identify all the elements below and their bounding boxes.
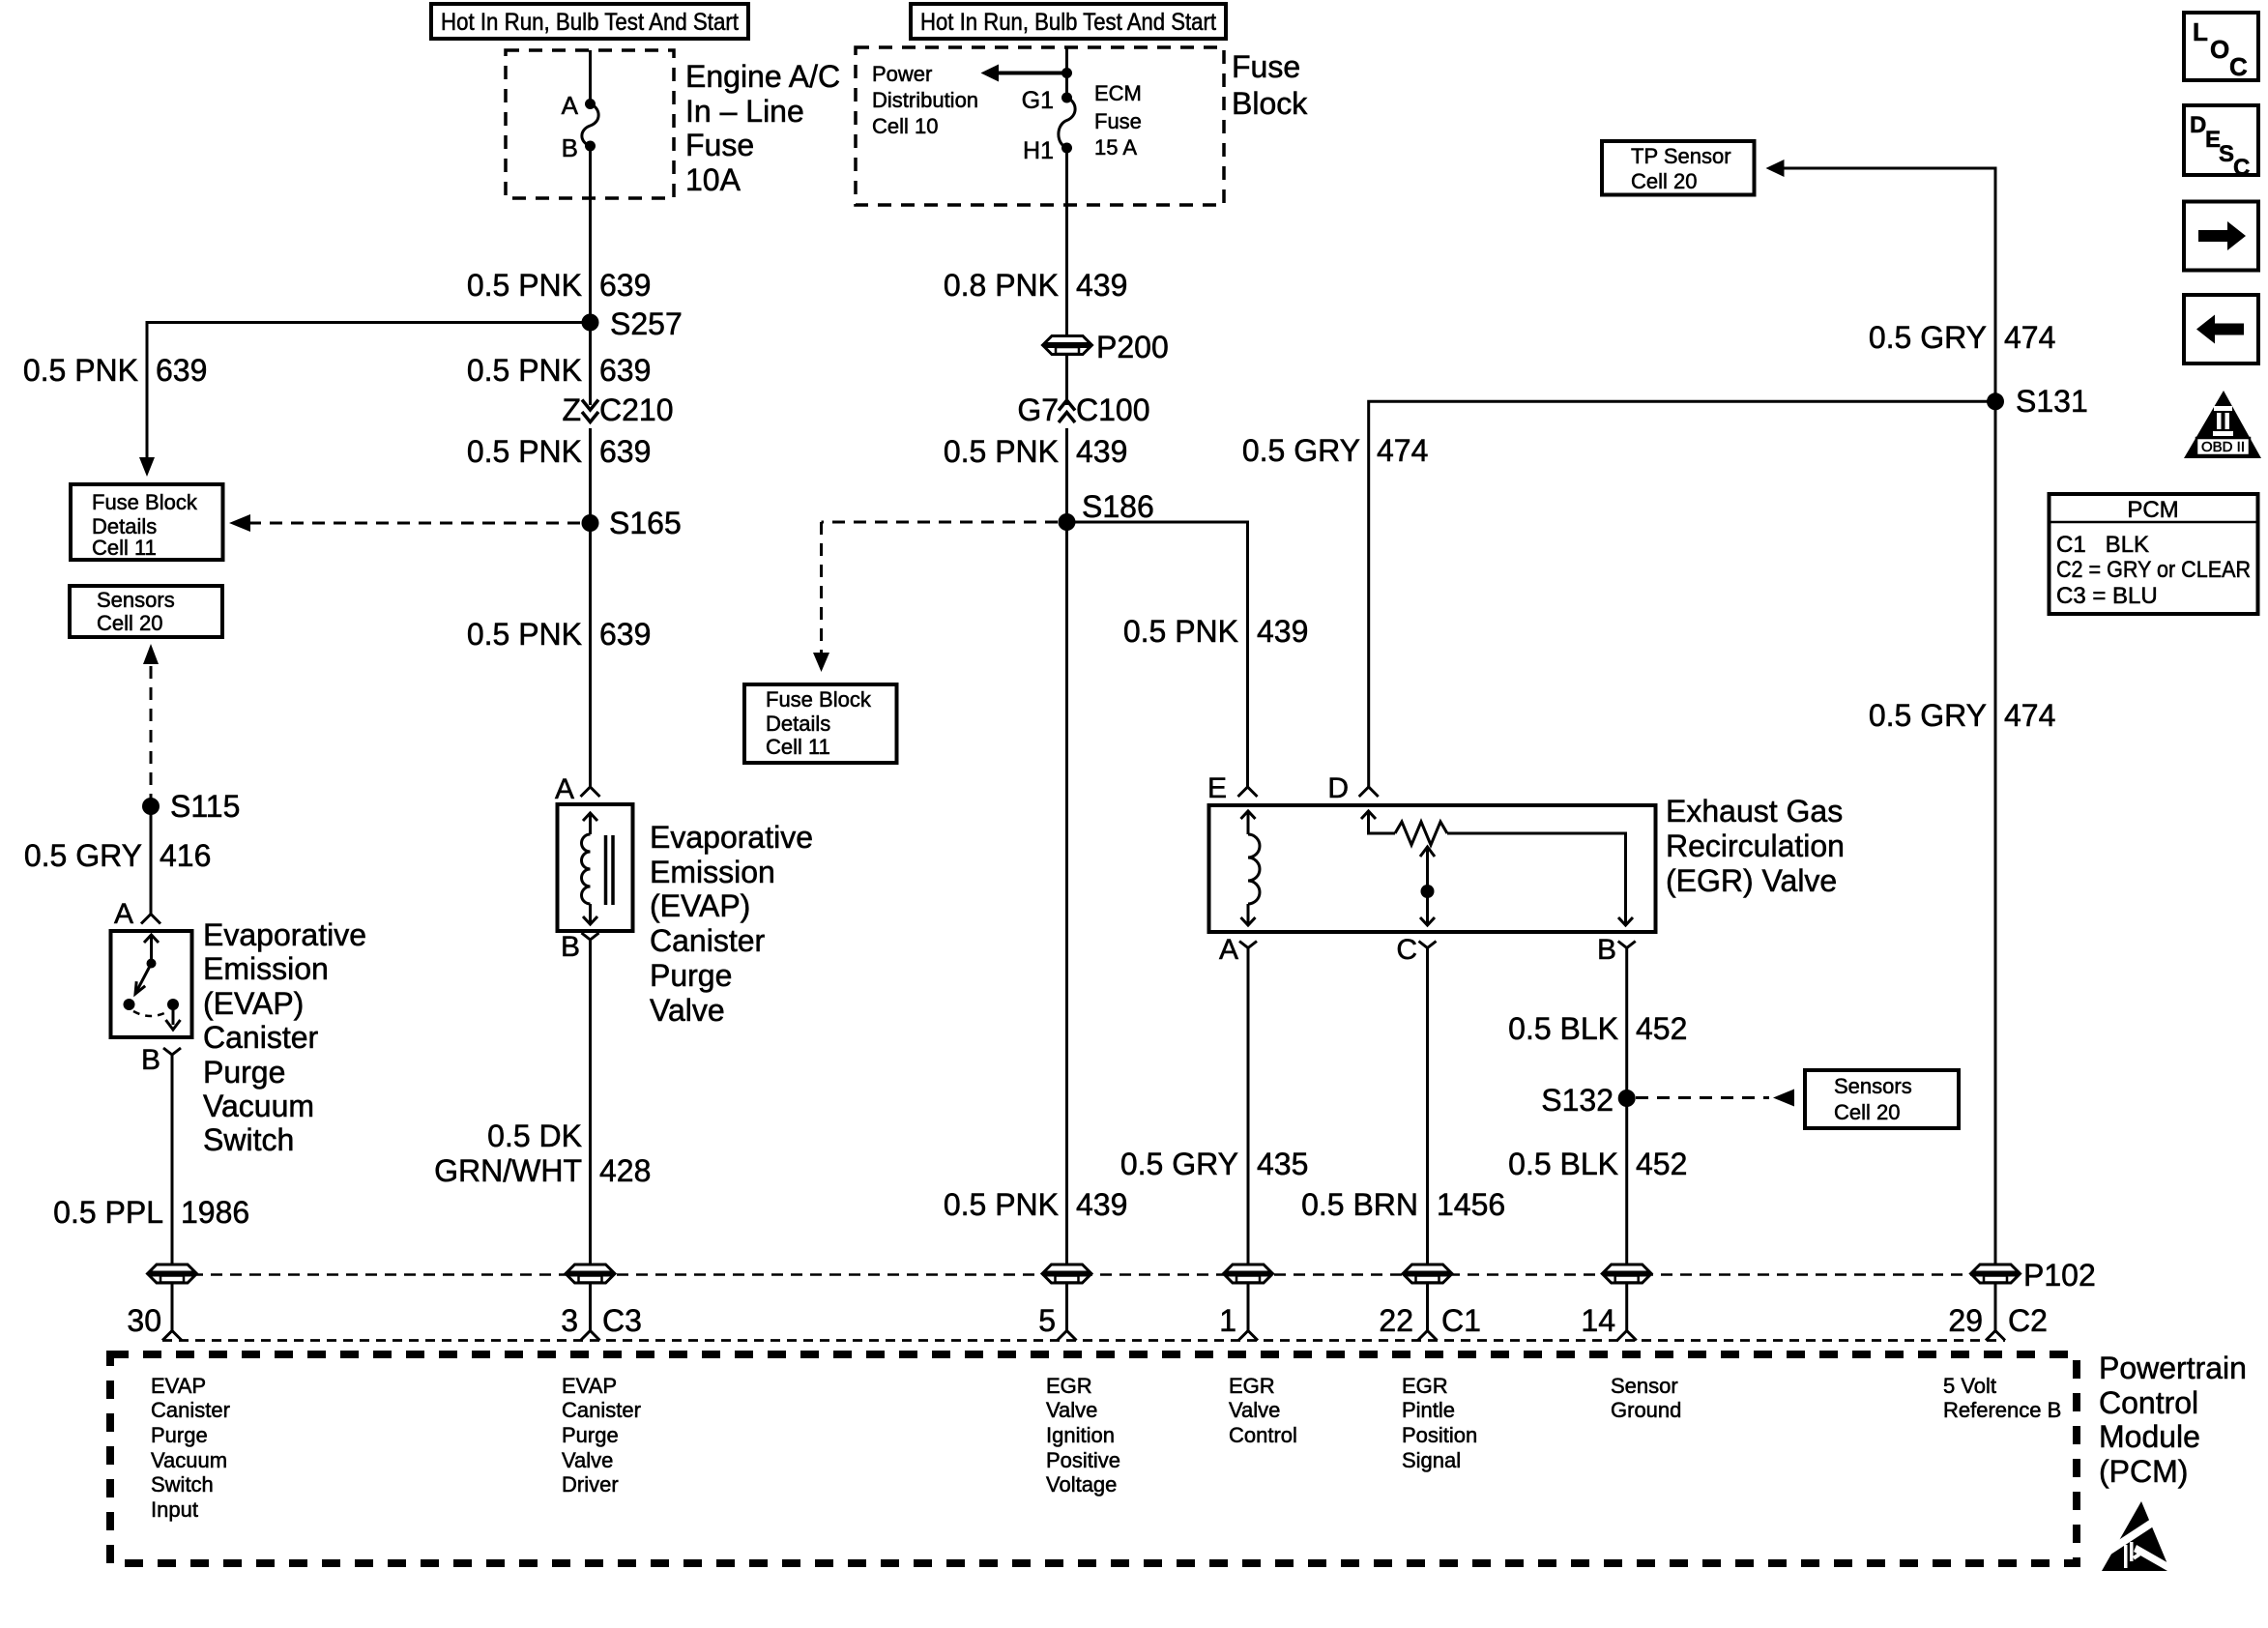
solenoid arrow up [583,813,597,821]
svg-text:Positive: Positive [1046,1448,1120,1472]
fuse block details box1 [71,484,223,560]
connector P102 grommet (pin 30 wire) [149,1265,195,1283]
connector C100 (G7) [1017,392,1149,427]
wire switch B to PCM pin 30 [171,1061,174,1331]
svg-text:Driver: Driver [562,1472,619,1497]
svg-text:(EGR) Valve: (EGR) Valve [1666,863,1837,898]
svg-text:474: 474 [2004,320,2055,355]
svg-text:0.5 PNK: 0.5 PNK [944,1187,1059,1222]
connector grommet (pin 22 wire) [1405,1265,1451,1283]
svg-text:Vacuum: Vacuum [151,1448,227,1472]
fuse block dashed box (right) [856,47,1224,205]
svg-text:B: B [1597,934,1616,966]
svg-text:Valve: Valve [650,993,725,1028]
svg-text:Cell 20: Cell 20 [97,611,162,635]
svg-text:Evaporative: Evaporative [650,820,813,855]
svg-text:439: 439 [1257,614,1308,649]
svg-text:P102: P102 [2023,1258,2096,1293]
svg-text:S115: S115 [170,789,240,824]
svg-text:H1: H1 [1023,137,1054,164]
svg-text:0.5 GRY: 0.5 GRY [1869,320,1987,355]
splice S131 [1987,392,2004,410]
svg-text:3: 3 [561,1303,578,1338]
wire EGR B to PCM pin 14 [1625,955,1628,1331]
svg-text:B: B [561,931,580,963]
svg-text:0.8 PNK: 0.8 PNK [944,268,1059,303]
sensors cell 20 box (right) [1805,1070,1959,1128]
svg-text:29: 29 [1948,1303,1983,1338]
svg-text:C1 BLK: C1 BLK [2056,532,2149,558]
wire valve B to PCM pin 3 [589,946,592,1331]
wire S257 branch left [147,323,591,459]
solenoid arrow down [583,916,597,924]
svg-text:Sensors: Sensors [1834,1074,1912,1098]
svg-text:A: A [562,91,579,120]
svg-text:Purge: Purge [650,958,732,993]
PCM pin 1 description [1229,1374,1297,1447]
svg-text:(PCM): (PCM) [2099,1454,2188,1489]
svg-text:Pintle: Pintle [1402,1398,1455,1422]
svg-text:S186: S186 [1082,489,1154,524]
arrow into TP sensor box [1766,160,1785,177]
svg-text:ECM: ECM [1094,81,1142,105]
svg-text:Fuse Block: Fuse Block [766,687,872,712]
dashed ref S132 to sensors box [1636,1090,1794,1107]
PCM pin 5 description [1046,1374,1120,1497]
svg-text:639: 639 [156,353,207,388]
svg-text:EGR: EGR [1046,1374,1092,1398]
TP sensor box [1602,141,1755,195]
EVAP purge vacuum switch box [111,931,192,1037]
svg-text:A: A [114,898,133,930]
svg-text:452: 452 [1636,1147,1687,1181]
dashed ref S115 up to sensors box [143,644,159,806]
svg-text:C3: C3 [602,1303,642,1338]
right arrow icon box [2184,202,2258,271]
svg-text:Exhaust Gas: Exhaust Gas [1666,794,1843,829]
svg-text:Switch: Switch [203,1122,294,1157]
arrow to power distribution [998,72,1067,75]
svg-text:D: D [2190,112,2206,138]
wire EGR D up and right to S131 [1369,401,1995,787]
svg-text:Switch: Switch [151,1472,214,1497]
svg-text:Distribution: Distribution [872,88,978,112]
svg-text:Signal: Signal [1402,1448,1461,1472]
ECM fuse terminal H1 [1061,143,1072,154]
sensors cell 20 box (left) [70,586,222,637]
svg-text:1456: 1456 [1437,1187,1505,1222]
EVAP canister purge valve box [558,804,633,931]
svg-text:Z: Z [562,392,581,427]
contacts [124,999,135,1010]
ESD symbol [2095,1501,2177,1575]
svg-text:639: 639 [599,434,651,469]
svg-text:(EVAP): (EVAP) [203,986,304,1021]
ECM fuse element [1059,98,1075,148]
svg-text:Block: Block [1232,86,1308,121]
svg-text:(EVAP): (EVAP) [650,888,750,923]
svg-text:Cell 11: Cell 11 [766,735,830,759]
svg-text:Control: Control [1229,1423,1297,1447]
left arrow icon box [2184,295,2258,363]
dashed ref S165 to fuse block details box1 [229,514,580,532]
dotted pin row line [162,1339,2005,1342]
svg-text:0.5 BLK: 0.5 BLK [1508,1011,1618,1046]
connector grommet (pin 5 wire) [1044,1265,1090,1283]
svg-text:15 A: 15 A [1094,135,1137,160]
svg-text:Ground: Ground [1611,1398,1681,1422]
svg-text:639: 639 [599,268,651,303]
splice S115 [142,798,160,815]
svg-text:Power: Power [872,62,932,86]
EGR potentiometer [1361,811,1633,925]
wire 5V ref up to TP sensor arrow [1784,168,1995,1331]
fuse F1 terminal B [585,141,596,152]
svg-text:C: C [2229,52,2248,81]
wire from title to fuse A [589,50,592,104]
svg-text:0.5 GRY: 0.5 GRY [24,838,142,873]
svg-text:S131: S131 [2016,384,2088,419]
core bars [604,835,608,905]
connector grommet (pin 14 wire) [1604,1265,1650,1283]
svg-text:Evaporative: Evaporative [203,917,366,952]
svg-text:Fuse: Fuse [1094,109,1142,133]
svg-text:0.5 PNK: 0.5 PNK [467,617,582,652]
svg-text:Valve: Valve [562,1448,613,1472]
svg-text:0.5 PNK: 0.5 PNK [467,268,582,303]
svg-text:0.5 GRY: 0.5 GRY [1869,698,1987,733]
PCM pin 30 description [151,1374,230,1522]
wire S115 to switch A [150,806,153,915]
wire S186 down to PCM pin 5 [1065,522,1068,1331]
svg-text:439: 439 [1076,1187,1127,1222]
fuse F1 element [582,104,598,147]
fuse F1 dashed box (Engine A/C In-Line Fuse) [506,50,674,198]
svg-text:Fuse Block: Fuse Block [92,490,198,514]
svg-text:0.5 DK: 0.5 DK [487,1119,582,1153]
svg-text:C1: C1 [1441,1303,1481,1338]
svg-text:22: 22 [1379,1303,1413,1338]
svg-text:Purge: Purge [562,1423,619,1447]
fuse block details box (middle) [744,684,897,763]
connector grommet (pin 3 wire) [567,1265,614,1283]
svg-text:C: C [2233,155,2250,181]
svg-text:0.5 GRY: 0.5 GRY [1120,1147,1238,1181]
svg-text:Canister: Canister [562,1398,641,1422]
svg-text:Details: Details [766,712,830,736]
svg-text:439: 439 [1076,434,1127,469]
svg-text:S257: S257 [610,306,683,341]
svg-text:G7: G7 [1017,392,1059,427]
svg-text:1: 1 [1219,1303,1236,1338]
svg-text:Control: Control [2099,1385,2198,1420]
svg-text:Input: Input [151,1497,198,1522]
EGR solenoid coil [1241,811,1261,925]
svg-text:0.5 BLK: 0.5 BLK [1508,1147,1618,1181]
PCM pin 3 description [562,1374,641,1497]
svg-text:639: 639 [599,617,651,652]
svg-text:In – Line: In – Line [685,94,804,129]
svg-text:Powertrain: Powertrain [2099,1351,2247,1385]
splice S257 [582,314,599,332]
EGR valve box [1209,805,1656,932]
svg-text:Hot In Run, Bulb Test And Star: Hot In Run, Bulb Test And Start [441,9,739,36]
svg-text:TP Sensor: TP Sensor [1631,144,1731,168]
svg-text:EVAP: EVAP [562,1374,617,1398]
svg-text:D: D [1327,772,1349,804]
svg-text:10A: 10A [685,162,741,197]
svg-text:0.5 PNK: 0.5 PNK [1123,614,1238,649]
svg-text:O: O [2210,35,2229,64]
svg-text:C100: C100 [1076,392,1150,427]
svg-text:A: A [1219,934,1238,966]
OBD II icon [2184,391,2261,458]
PCM dashed box [110,1354,2077,1563]
wire into fuse block [1065,47,1068,98]
svg-text:639: 639 [599,353,651,388]
svg-text:435: 435 [1257,1147,1308,1181]
svg-text:Hot In Run, Bulb Test And Star: Hot In Run, Bulb Test And Start [920,9,1216,36]
svg-text:S165: S165 [609,506,682,540]
svg-text:0.5 GRY: 0.5 GRY [1242,433,1360,468]
title box: Hot In Run, Bulb Test And Start (left) [431,4,748,39]
svg-text:416: 416 [160,838,211,873]
splice S165 [582,514,599,532]
PCM legend box [2050,494,2258,614]
connector P200 [1044,336,1090,355]
svg-text:0.5 BRN: 0.5 BRN [1301,1187,1418,1222]
svg-text:Recirculation: Recirculation [1666,829,1845,863]
switch pole arrow [144,935,159,943]
svg-text:EGR: EGR [1229,1374,1275,1398]
junction in fuse block [1061,68,1072,78]
svg-text:S: S [2219,141,2234,167]
svg-text:Fuse: Fuse [685,128,754,162]
svg-text:Purge: Purge [151,1423,208,1447]
DESC icon box [2184,105,2258,181]
svg-text:Position: Position [1402,1423,1477,1447]
arrow into fuse block details box1 [139,457,155,477]
svg-text:Fuse: Fuse [1232,49,1300,84]
svg-text:EGR: EGR [1402,1374,1448,1398]
splice S186 [1059,513,1076,531]
svg-text:Purge: Purge [203,1055,285,1090]
svg-text:0.5 PPL: 0.5 PPL [53,1195,163,1230]
wire S186 right branch to EGR E [1067,522,1248,787]
svg-text:474: 474 [1377,433,1428,468]
PCM pin 29 description [1943,1374,2061,1422]
svg-text:Valve: Valve [1229,1398,1280,1422]
PCM pin 22 description [1402,1374,1477,1472]
svg-text:B: B [141,1044,160,1076]
svg-text:L: L [2193,17,2208,46]
svg-text:Ignition: Ignition [1046,1423,1115,1447]
dashed connector line P102 row [172,1273,1995,1276]
svg-text:0.5 PNK: 0.5 PNK [944,434,1059,469]
svg-text:S132: S132 [1541,1083,1614,1118]
svg-text:C3 = BLU: C3 = BLU [2056,583,2158,609]
svg-text:Canister: Canister [203,1020,319,1055]
svg-text:428: 428 [599,1153,651,1188]
svg-text:Canister: Canister [151,1398,230,1422]
svg-text:1986: 1986 [181,1195,249,1230]
fuse F1 terminal A [585,99,596,109]
svg-text:30: 30 [127,1303,161,1338]
svg-text:Cell 11: Cell 11 [92,536,157,560]
svg-text:5 Volt: 5 Volt [1943,1374,1996,1398]
svg-text:A: A [555,773,574,805]
svg-text:452: 452 [1636,1011,1687,1046]
svg-text:Cell 20: Cell 20 [1834,1100,1900,1124]
svg-text:439: 439 [1076,268,1127,303]
wire EGR C to PCM pin 22 [1426,955,1429,1331]
PCM pin 14 description [1611,1374,1681,1422]
svg-text:P200: P200 [1096,330,1169,364]
wire EGR A to PCM pin 1 [1247,955,1250,1331]
svg-text:Engine A/C: Engine A/C [685,59,840,94]
svg-text:PCM: PCM [2127,497,2178,523]
wire below P200 [1065,355,1068,405]
svg-text:14: 14 [1581,1303,1615,1338]
wire 0.5 PNK 639 (fuse B to S257) [589,146,592,323]
wire C210 to valve A [589,428,592,787]
switch arm [136,964,152,993]
connector C210 (Z) [562,323,673,428]
svg-text:Reference B: Reference B [1943,1398,2061,1422]
connector grommet (pin 1 wire) [1225,1265,1271,1283]
svg-text:Canister: Canister [650,923,766,958]
svg-text:Sensor: Sensor [1611,1374,1678,1398]
svg-text:0.5 PNK: 0.5 PNK [467,434,582,469]
svg-text:C2: C2 [2008,1303,2048,1338]
svg-text:Emission: Emission [650,855,775,889]
svg-text:Voltage: Voltage [1046,1472,1117,1497]
svg-text:GRN/WHT: GRN/WHT [434,1153,582,1188]
LOC icon box [2184,13,2258,81]
svg-text:B: B [562,133,578,162]
connector grommet P102 (pin 29 wire) [1972,1265,2019,1283]
svg-text:C: C [1396,934,1417,966]
svg-text:5: 5 [1038,1303,1056,1338]
dashed ref from S186 to fuse block details [813,522,1058,672]
coil arcs [582,834,591,904]
svg-text:Emission: Emission [203,951,329,986]
svg-text:C2 = GRY or CLEAR: C2 = GRY or CLEAR [2056,557,2251,583]
svg-text:Cell 20: Cell 20 [1631,169,1697,193]
svg-text:Module: Module [2099,1419,2200,1454]
title box: Hot In Run, Bulb Test And Start (right) [911,4,1226,39]
wire 0.5 PNK 439 (C100 to S186) [1065,428,1068,522]
svg-text:0.5 PNK: 0.5 PNK [467,353,582,388]
svg-text:Vacuum: Vacuum [203,1089,314,1123]
EGR wiper [1420,847,1435,925]
svg-text:OBD II: OBD II [2201,439,2245,455]
svg-text:Valve: Valve [1046,1398,1097,1422]
svg-text:C210: C210 [599,392,674,427]
svg-text:Sensors: Sensors [97,588,175,612]
svg-text:G1: G1 [1022,87,1054,114]
splice S132 [1618,1090,1636,1107]
svg-text:474: 474 [2004,698,2055,733]
ECM fuse terminal G1 [1061,93,1072,103]
svg-text:E: E [1207,772,1227,804]
svg-text:EVAP: EVAP [151,1374,206,1398]
svg-text:Cell 10: Cell 10 [872,114,938,138]
svg-text:0.5 PNK: 0.5 PNK [23,353,138,388]
wire 0.8 PNK 439 (fuse to S186) [1065,148,1068,335]
